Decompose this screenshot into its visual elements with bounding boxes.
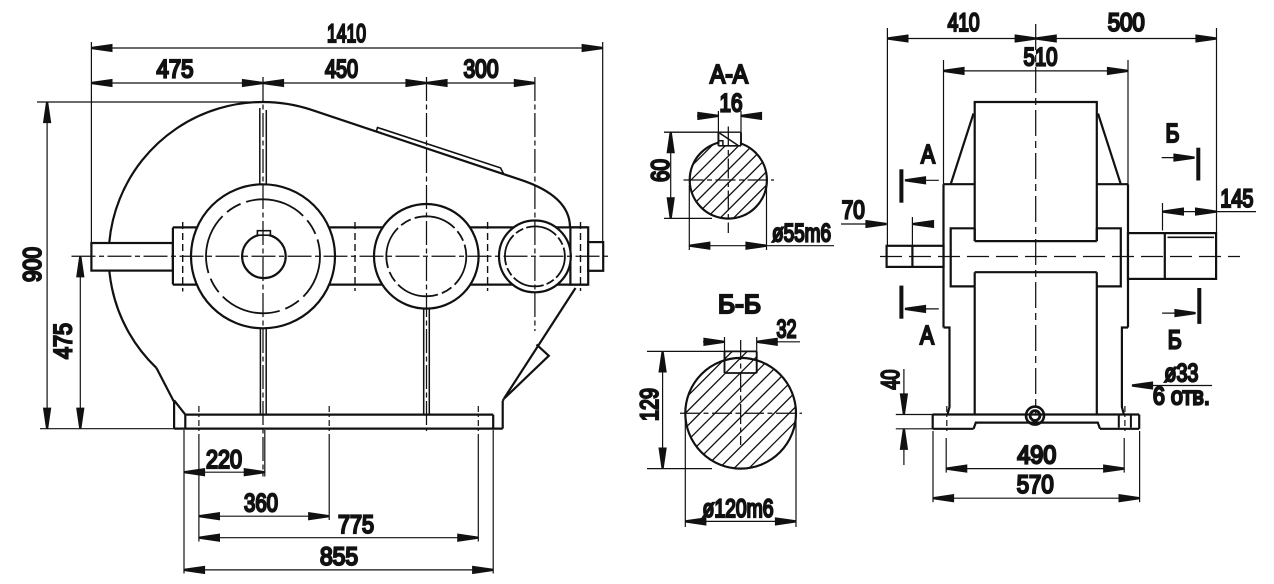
dimension 60 A-A bbox=[664, 132, 712, 218]
section mark B top bbox=[1162, 148, 1199, 181]
dimension 775 bbox=[199, 434, 478, 542]
svg-text:А: А bbox=[920, 320, 935, 350]
dimension 855 bbox=[184, 430, 493, 574]
keyway box on bore C1 bbox=[257, 231, 270, 236]
gear boss circle C1 outer bbox=[191, 184, 335, 328]
base bottom left foot bbox=[933, 428, 974, 430]
svg-text:32: 32 bbox=[777, 316, 797, 344]
output cover face divider bbox=[1164, 233, 1166, 279]
svg-text:Б-Б: Б-Б bbox=[718, 289, 761, 319]
svg-text:145: 145 bbox=[1220, 185, 1253, 213]
dimension 360 bbox=[199, 434, 329, 542]
svg-text:ø120m6: ø120m6 bbox=[703, 495, 774, 523]
left gusset ledge bbox=[944, 183, 975, 185]
key corner diagonal A-A bbox=[720, 133, 739, 145]
dimension 475 vertical bbox=[79, 256, 81, 428]
svg-text:300: 300 bbox=[464, 56, 499, 84]
svg-text:360: 360 bbox=[244, 490, 278, 518]
svg-text:А-А: А-А bbox=[710, 59, 749, 89]
svg-text:6 отв.: 6 отв. bbox=[1153, 383, 1210, 411]
left flange lug bbox=[951, 228, 975, 286]
dimension 570 bbox=[933, 431, 1140, 502]
centerline C2 vertical bbox=[426, 77, 428, 431]
input shaft stub bbox=[91, 243, 172, 271]
svg-text:450: 450 bbox=[325, 56, 358, 84]
hidden dashed vertical on right cap bbox=[580, 222, 582, 291]
keyway slot sides B-B bbox=[725, 337, 757, 351]
input shaft stub left bbox=[887, 246, 944, 267]
keyway top line B-B bbox=[725, 350, 757, 352]
svg-text:Б: Б bbox=[1168, 325, 1182, 355]
svg-text:510: 510 bbox=[1024, 44, 1058, 72]
joint double lines below shaft C2 bbox=[424, 309, 430, 415]
dimension o120m6 B-B bbox=[685, 420, 796, 527]
oil drain plug outer ring bbox=[1026, 407, 1044, 425]
mounting hole centerline right bbox=[477, 406, 479, 434]
horizontal centerline main shafts bbox=[72, 255, 610, 257]
dimension 510 bbox=[944, 60, 1129, 184]
base right lip bbox=[493, 399, 504, 429]
svg-text:500: 500 bbox=[1108, 9, 1145, 37]
oil drain plug inner ring bbox=[1030, 411, 1040, 421]
svg-text:Б: Б bbox=[1166, 118, 1180, 148]
svg-text:900: 900 bbox=[19, 247, 47, 282]
housing bottom-left slant wall bbox=[156, 368, 174, 402]
keyway bottom B-B bbox=[725, 372, 757, 374]
bolt hidden line on input flange bbox=[182, 222, 184, 292]
right gusset ledge bbox=[1097, 183, 1128, 185]
svg-text:490: 490 bbox=[1017, 442, 1056, 470]
section mark A top bbox=[901, 169, 938, 202]
mounting hole centerline left bbox=[198, 406, 200, 434]
gear circle C2 outer bbox=[374, 204, 479, 309]
svg-text:475: 475 bbox=[157, 56, 194, 84]
base right edge bbox=[1138, 415, 1140, 429]
right foot hole axis bbox=[1124, 406, 1126, 434]
svg-text:А: А bbox=[921, 139, 936, 169]
dimension 129 B-B bbox=[647, 351, 725, 468]
dimension 145 bbox=[1163, 203, 1257, 231]
base plate top bbox=[185, 414, 493, 416]
shaft bore circle C1 bbox=[242, 234, 286, 278]
keyway slot sides A-A bbox=[718, 111, 741, 132]
svg-text:40: 40 bbox=[877, 370, 905, 390]
dimension 40 bbox=[896, 369, 935, 465]
svg-text:410: 410 bbox=[948, 9, 980, 37]
centerline B-B vertical bbox=[740, 340, 742, 445]
horizontal shaft axis endview bbox=[880, 256, 1240, 258]
housing roof slant line bbox=[263, 102, 570, 227]
centerline C3 vertical bbox=[534, 77, 536, 331]
base left lip bbox=[174, 400, 185, 428]
svg-text:475: 475 bbox=[50, 323, 78, 359]
dimension 70 bbox=[841, 217, 933, 246]
dimension 1410 bbox=[91, 42, 602, 243]
svg-text:775: 775 bbox=[338, 511, 374, 539]
bearing circle C3 inner dashed bbox=[505, 226, 565, 286]
center vertical axis bbox=[1035, 24, 1037, 414]
hole o33 edges bbox=[1119, 415, 1131, 428]
base top line bbox=[933, 413, 1139, 415]
dimension row 475/450/300 bbox=[91, 82, 535, 84]
left wall upper bbox=[942, 184, 944, 327]
split flange band top bbox=[975, 240, 1097, 242]
housing right lower slant wall bbox=[504, 288, 576, 399]
output shaft assembly right bbox=[1128, 233, 1216, 279]
svg-text:ø55m6: ø55m6 bbox=[772, 220, 831, 248]
joint double lines above shaft C1 bbox=[260, 108, 267, 184]
key corner box A-A bbox=[718, 141, 723, 146]
joint double lines below shaft C1 bbox=[260, 328, 266, 414]
base left edge bbox=[932, 415, 934, 429]
dimension 490 bbox=[946, 438, 1124, 473]
left gusset slant bbox=[951, 114, 974, 185]
svg-text:570: 570 bbox=[1017, 471, 1054, 499]
key white area A-A bbox=[720, 112, 740, 145]
right leg line bbox=[1096, 286, 1098, 414]
output keyway line bbox=[1168, 236, 1215, 238]
left wall lower step bbox=[944, 328, 950, 415]
right wall upper bbox=[1127, 184, 1129, 327]
centerline B-B horizontal bbox=[680, 412, 802, 414]
hatching of shaft section A-A bbox=[580, 116, 875, 223]
section mark A bottom bbox=[901, 286, 938, 319]
housing split flange band top line bbox=[173, 226, 588, 228]
dimension 32 B-B bbox=[703, 341, 800, 343]
svg-text:1410: 1410 bbox=[327, 20, 366, 48]
gear circle C3 outer bbox=[499, 221, 571, 293]
right wall lower step bbox=[1122, 328, 1128, 415]
shaft section circle B-B bbox=[685, 358, 796, 469]
leader o33 6 holes bbox=[1132, 385, 1212, 387]
split flange band bottom bbox=[975, 271, 1097, 273]
svg-text:70: 70 bbox=[842, 197, 865, 225]
shaft section circle A-A bbox=[690, 141, 767, 218]
base plate bottom bbox=[174, 428, 503, 430]
svg-text:855: 855 bbox=[320, 543, 358, 571]
centerline A-A horizontal bbox=[684, 179, 775, 181]
centerline A-A vertical bbox=[727, 127, 729, 234]
dimension 900 bbox=[37, 102, 265, 429]
svg-text:129: 129 bbox=[636, 388, 664, 421]
right gusset slant bbox=[1098, 114, 1121, 185]
bearing cap end housing right bbox=[570, 227, 588, 284]
mounting hole centerline mid bbox=[328, 406, 330, 434]
svg-text:60: 60 bbox=[647, 159, 675, 182]
hidden dashed vertical between C1-C2 bbox=[354, 222, 356, 291]
base bottom relief middle bbox=[974, 423, 1100, 429]
section mark B bottom bbox=[1162, 288, 1199, 324]
bearing circle C2 inner dashed bbox=[386, 216, 466, 296]
oil drain boss triangle bbox=[505, 345, 549, 399]
svg-text:16: 16 bbox=[720, 90, 743, 118]
centerline C1 vertical bbox=[262, 77, 264, 477]
right flange lug bbox=[1097, 228, 1121, 286]
output shaft stub right bbox=[588, 242, 603, 271]
top cap rectangle bbox=[975, 102, 1097, 241]
housing body arc bbox=[109, 102, 263, 368]
base bottom right foot bbox=[1100, 428, 1139, 430]
dimension 220 bbox=[184, 430, 265, 574]
key top line / 60-extension A-A bbox=[664, 131, 741, 133]
hatching of shaft section B-B bbox=[551, 333, 929, 474]
svg-text:220: 220 bbox=[206, 446, 242, 474]
bearing circle C1 inner dashed bbox=[206, 199, 320, 313]
input bearing cover flange bbox=[172, 227, 174, 284]
keyway bottom A-A bbox=[718, 145, 741, 147]
left foot hole axis bbox=[946, 406, 948, 434]
left leg line bbox=[974, 286, 976, 414]
hidden dashed vertical between C2-C3 bbox=[487, 222, 489, 291]
dimension 410-500 bbox=[887, 28, 1216, 246]
inspection hatch cover on roof bbox=[376, 128, 503, 174]
dimension o55m6 A-A bbox=[689, 185, 834, 250]
dimension 16 A-A bbox=[697, 115, 762, 117]
input cover face divider bbox=[911, 246, 913, 267]
housing split flange band bottom line bbox=[173, 284, 588, 286]
